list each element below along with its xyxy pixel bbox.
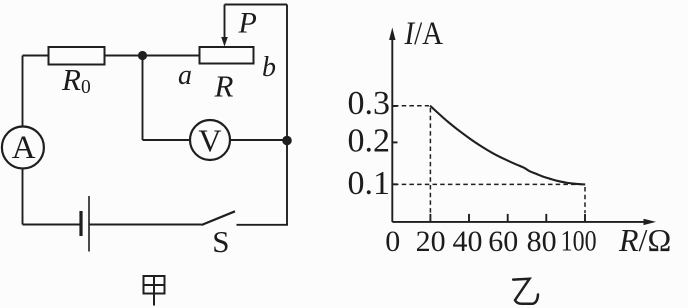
svg-text:b: b bbox=[262, 52, 276, 83]
ammeter A bbox=[2, 127, 44, 169]
label b bbox=[262, 52, 276, 83]
dashed line 0.3 to curve bbox=[394, 105, 429, 107]
wire switch right to rail bbox=[237, 224, 289, 226]
svg-text:R: R bbox=[214, 69, 234, 104]
label 100 bbox=[561, 224, 597, 257]
battery negative plate (short) bbox=[79, 211, 82, 236]
svg-text:P: P bbox=[238, 7, 257, 40]
wire junction 1 down to voltmeter level bbox=[142, 56, 144, 141]
label 0.1 bbox=[348, 165, 391, 202]
label I/A bbox=[404, 16, 444, 52]
label jia (Chinese 甲) bbox=[144, 276, 165, 306]
node junction 1 bbox=[138, 51, 147, 60]
slider P arrow bbox=[221, 5, 228, 47]
svg-text:I/A: I/A bbox=[404, 16, 444, 52]
x tick 80 bbox=[545, 214, 547, 222]
svg-text:0: 0 bbox=[385, 225, 400, 258]
x tick 40 bbox=[468, 214, 470, 222]
svg-text:0.2: 0.2 bbox=[348, 123, 391, 160]
wire slider top to right rail bbox=[225, 4, 288, 6]
svg-text:100: 100 bbox=[561, 224, 597, 257]
rheostat R body bbox=[200, 47, 254, 64]
label S bbox=[212, 224, 229, 259]
dashed vertical at R=20 bbox=[429, 108, 431, 213]
label 0.2 bbox=[348, 123, 391, 160]
svg-text:A: A bbox=[12, 130, 36, 166]
label yi (Chinese 乙) bbox=[513, 279, 538, 304]
wire to voltmeter left bbox=[143, 139, 191, 141]
svg-text:0.3: 0.3 bbox=[348, 85, 391, 122]
wire ammeter bottom down bbox=[22, 169, 24, 225]
switch S arm bbox=[202, 211, 236, 225]
svg-text:a: a bbox=[178, 60, 192, 91]
x tick 20 bbox=[429, 214, 431, 222]
resistor R0 bbox=[49, 47, 105, 65]
x tick 100 bbox=[584, 214, 586, 222]
label R/Ohm bbox=[618, 222, 671, 258]
label R0 bbox=[61, 62, 91, 98]
y tick 0.3 bbox=[392, 105, 397, 107]
label 0 bbox=[385, 225, 400, 258]
y-axis I bbox=[389, 28, 395, 222]
wire voltmeter right to node 2 bbox=[230, 139, 287, 141]
svg-text:60: 60 bbox=[488, 225, 518, 258]
label R bbox=[214, 69, 234, 104]
dashed vertical at R=100 bbox=[584, 187, 586, 213]
svg-text:R0: R0 bbox=[61, 62, 91, 98]
y tick 0.2 bbox=[392, 141, 397, 143]
ammeter letter A bbox=[12, 130, 36, 166]
label 0.3 bbox=[348, 85, 391, 122]
label 80 bbox=[527, 225, 557, 258]
curve I vs R bbox=[430, 106, 585, 185]
svg-text:40: 40 bbox=[453, 225, 483, 258]
svg-text:0.1: 0.1 bbox=[348, 165, 391, 202]
wire R0 to rheostat bbox=[105, 55, 200, 57]
wire right rail vertical bbox=[286, 5, 288, 225]
label P bbox=[238, 7, 257, 40]
svg-text:S: S bbox=[212, 224, 229, 259]
wire battery to switch bbox=[89, 224, 202, 226]
voltmeter V bbox=[190, 120, 230, 160]
label 20 bbox=[416, 225, 446, 258]
battery positive plate (long) bbox=[88, 196, 90, 252]
voltmeter letter V bbox=[198, 123, 221, 159]
wire bottom left to battery bbox=[23, 224, 82, 226]
y tick 0.1 bbox=[392, 183, 397, 185]
x tick 60 bbox=[507, 214, 509, 222]
label 60 bbox=[488, 225, 518, 258]
svg-text:R/Ω: R/Ω bbox=[618, 222, 671, 258]
dashed line 0.1 across bbox=[394, 183, 583, 185]
wire top-left corner to R0 bbox=[23, 55, 49, 57]
svg-text:80: 80 bbox=[527, 225, 557, 258]
svg-text:20: 20 bbox=[416, 225, 446, 258]
x-axis R bbox=[392, 219, 656, 225]
wire left vertical (corner to ammeter) bbox=[22, 56, 24, 127]
svg-text:V: V bbox=[198, 123, 221, 159]
node junction 2 bbox=[282, 136, 292, 146]
label a bbox=[178, 60, 192, 91]
label 40 bbox=[453, 225, 483, 258]
